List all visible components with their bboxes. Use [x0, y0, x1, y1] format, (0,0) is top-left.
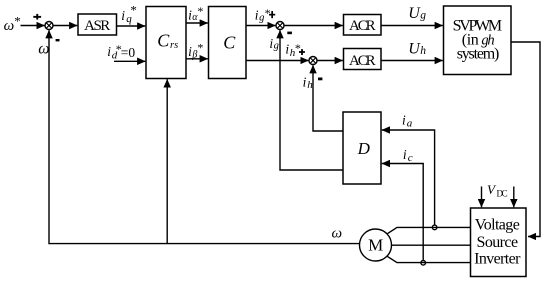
block ACR1 — [344, 15, 382, 36]
svg-text:ω: ω — [38, 41, 49, 58]
svg-text:rs: rs — [170, 40, 178, 51]
svg-text:h: h — [307, 79, 313, 91]
wire: ACR1 to SVPWM (Ug) — [381, 25, 443, 27]
wire: phase b (middle) — [392, 244, 471, 246]
wire: phase c (bottom) — [387, 256, 471, 262]
svg-text:ASR: ASR — [84, 18, 110, 34]
svg-text:Source: Source — [477, 234, 519, 251]
wire: Crs to C (i_beta*) — [186, 58, 208, 60]
wire: C to S1 (ig*) — [246, 25, 276, 27]
svg-text:ACR: ACR — [349, 18, 376, 34]
svg-text:*: * — [14, 14, 20, 29]
wire: S0 to ASR — [53, 25, 77, 27]
current tap on phase c — [421, 261, 426, 266]
svg-text:h: h — [420, 45, 426, 57]
svg-text:V: V — [487, 182, 497, 197]
svg-text:C: C — [157, 30, 170, 50]
wire: ic sense into D — [382, 164, 423, 261]
svg-text:=0: =0 — [121, 45, 136, 60]
svg-text:C: C — [223, 32, 236, 52]
svg-text:D: D — [357, 139, 371, 158]
block ACR2 — [344, 49, 382, 70]
wire: Vdc right arrow — [513, 187, 515, 208]
wire: phase a (top) — [387, 227, 471, 234]
block SVPWM — [444, 6, 512, 75]
wire: C to S2 (ih*) — [246, 60, 309, 62]
svg-text:i: i — [121, 8, 125, 23]
svg-text:*: * — [197, 4, 203, 18]
wire: D lower output to S1 — [280, 30, 343, 170]
summing junction S2 — [309, 57, 317, 65]
wire: ia sense into D — [382, 130, 435, 225]
wire: id*=0 input — [114, 60, 145, 62]
svg-text:c: c — [408, 152, 413, 164]
svg-text:g: g — [420, 10, 426, 22]
svg-text:ACR: ACR — [349, 53, 376, 69]
wire: D upper output to S2 — [313, 65, 343, 131]
wire: S2 to ACR2 — [317, 60, 343, 62]
block D — [343, 112, 381, 184]
wire: S1 to ACR1 — [284, 25, 343, 27]
block C — [209, 7, 247, 79]
wire: omega* input — [21, 25, 45, 27]
motor M — [360, 229, 392, 261]
svg-text:M: M — [368, 236, 383, 255]
label minus at S2 — [318, 78, 322, 81]
svg-text:ω: ω — [332, 225, 343, 241]
svg-text:Voltage: Voltage — [475, 217, 520, 234]
wire: SVPWM output to VSI — [511, 42, 540, 237]
label plus at S0 — [33, 14, 41, 20]
svg-text:Inverter: Inverter — [474, 251, 521, 268]
wire: ASR to Crs (iq*) — [117, 25, 146, 27]
svg-text:*: * — [295, 41, 301, 55]
svg-text:i: i — [403, 147, 407, 162]
summing junction S0 — [45, 22, 53, 30]
svg-text:i: i — [107, 44, 111, 59]
block ASR — [78, 14, 117, 35]
label minus at S1 — [287, 32, 292, 35]
summing junction S1 — [276, 22, 284, 30]
svg-text:*: * — [265, 6, 271, 20]
current tap on phase a — [432, 225, 437, 230]
wire: Vdc left arrow — [481, 187, 483, 208]
svg-text:DC: DC — [497, 189, 508, 199]
svg-text:i: i — [285, 42, 289, 57]
svg-text:g: g — [259, 12, 264, 23]
svg-text:system): system) — [457, 46, 500, 63]
wire: omega branch to Crs — [166, 79, 168, 243]
wire: ACR2 to SVPWM (Uh) — [381, 60, 443, 62]
svg-text:i: i — [402, 113, 406, 128]
block Crs — [146, 7, 186, 79]
wire: Crs to C (i_alpha*) — [186, 22, 208, 24]
svg-text:*: * — [197, 41, 203, 55]
block VSI — [471, 208, 527, 277]
svg-text:a: a — [407, 118, 413, 130]
svg-text:i: i — [303, 75, 307, 90]
svg-text:*: * — [130, 3, 137, 18]
svg-text:ω: ω — [4, 18, 15, 34]
label minus at S0 — [56, 39, 60, 41]
svg-text:g: g — [274, 40, 279, 51]
wire: speed feedback omega — [49, 30, 360, 243]
